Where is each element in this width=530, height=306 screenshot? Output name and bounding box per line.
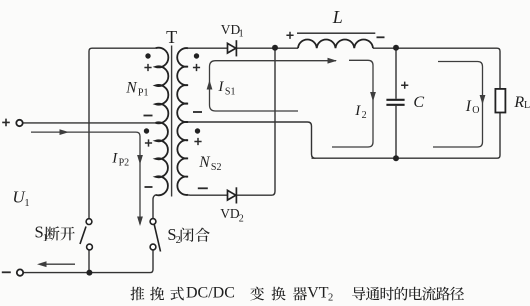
capacitor C plates bbox=[386, 100, 404, 105]
svg-text:O: O bbox=[472, 105, 479, 116]
current loop I2 bbox=[332, 60, 373, 147]
return arrow bottom-left bbox=[41, 263, 75, 265]
polarity dot NS2 bbox=[195, 128, 200, 133]
wire bottom-left rail bbox=[24, 272, 151, 274]
wire bottom output rail bbox=[312, 157, 498, 159]
plus NP1 bbox=[144, 64, 151, 71]
wire RL right branch down bbox=[497, 48, 500, 158]
input + terminal bbox=[16, 120, 22, 126]
wire S1 bottom stub bbox=[88, 250, 90, 273]
svg-text:T: T bbox=[166, 27, 177, 47]
transformer T core bbox=[171, 46, 173, 197]
wire secondary center tap jog bbox=[188, 122, 316, 158]
svg-text:DC/DC: DC/DC bbox=[186, 285, 235, 302]
inductor L humps bbox=[298, 39, 373, 48]
svg-text:L: L bbox=[332, 7, 343, 27]
plus capacitor bbox=[401, 82, 408, 89]
node D junction dot (bottom-left rail) bbox=[86, 270, 92, 276]
plus inductor left bbox=[286, 32, 293, 39]
current path IP2 arrow line bbox=[31, 132, 140, 224]
current loop IO bbox=[433, 62, 483, 148]
node A junction dot (VD outputs) bbox=[272, 45, 278, 51]
inductor L overbar bbox=[297, 32, 375, 34]
wire NS2 bottom to VD2 anode bbox=[188, 194, 228, 196]
current loop IS1 bbox=[210, 61, 337, 111]
svg-text:I: I bbox=[217, 79, 224, 95]
transformer winding NP1 bbox=[156, 48, 169, 124]
node B junction dot (inductor-capacitor) bbox=[393, 45, 399, 51]
wire capacitor branch bbox=[395, 48, 397, 99]
svg-text:VD: VD bbox=[220, 206, 240, 221]
svg-text:VD: VD bbox=[221, 22, 241, 37]
wire NP2 bottom to switch S2 bbox=[153, 195, 156, 219]
svg-text:2: 2 bbox=[362, 110, 367, 121]
svg-text:P2: P2 bbox=[119, 157, 130, 168]
node C junction dot (capacitor bottom) bbox=[393, 155, 399, 161]
minus NP2 bbox=[145, 186, 153, 188]
svg-text:1: 1 bbox=[239, 29, 244, 40]
minus NS1 bbox=[193, 111, 202, 113]
svg-text:I: I bbox=[111, 150, 118, 166]
wire VD1 cathode to node A then inductor then RL branch bbox=[237, 47, 299, 49]
wire NS1 top to VD1 anode bbox=[188, 47, 228, 49]
minus NS2 bbox=[198, 187, 208, 189]
svg-text:2: 2 bbox=[328, 292, 333, 303]
minus input bbox=[2, 271, 11, 273]
minus NP1 bbox=[144, 115, 153, 117]
svg-text:R: R bbox=[513, 94, 524, 111]
switch S2 blade (closed) bbox=[154, 224, 160, 251]
input - terminal bbox=[17, 269, 23, 275]
caption 推挽式DC/DC变换器VT2导通时的电流路径 bbox=[130, 287, 144, 301]
diode VD2 bbox=[228, 187, 237, 203]
svg-text:L: L bbox=[524, 100, 530, 111]
plus NS1 bbox=[193, 64, 200, 71]
svg-text:S1: S1 bbox=[225, 87, 236, 98]
switch S2 contacts bbox=[150, 219, 156, 225]
svg-text:VT: VT bbox=[307, 285, 329, 302]
diode VD1 bbox=[228, 40, 237, 56]
transformer winding NP2 bbox=[156, 122, 168, 195]
wire input + terminal to primary center tap bbox=[23, 122, 156, 124]
plus input bbox=[2, 119, 10, 127]
svg-text:1: 1 bbox=[24, 198, 29, 209]
svg-text:2: 2 bbox=[239, 213, 244, 224]
svg-text:C: C bbox=[413, 94, 424, 111]
polarity dot NP2 bbox=[144, 128, 149, 133]
svg-text:1: 1 bbox=[43, 233, 48, 244]
plus NS2 bbox=[194, 138, 201, 145]
transformer winding NS2 bbox=[177, 122, 188, 195]
svg-text:N: N bbox=[198, 154, 211, 171]
svg-text:I: I bbox=[354, 103, 361, 119]
wire top-left from corner to NP1 top bbox=[89, 48, 156, 219]
minus inductor right bbox=[377, 36, 385, 38]
switch S1 contacts bbox=[86, 219, 92, 225]
svg-text:S2: S2 bbox=[211, 162, 222, 173]
resistor RL bbox=[495, 89, 505, 113]
polarity dot NS1 bbox=[194, 53, 199, 58]
transformer winding NS1 bbox=[177, 48, 188, 122]
wire VD2 cathode up to node A bbox=[237, 48, 276, 195]
svg-text:N: N bbox=[125, 79, 138, 96]
svg-text:I: I bbox=[465, 98, 472, 115]
switch S1 blade (open) bbox=[80, 227, 86, 245]
svg-text:P1: P1 bbox=[138, 87, 149, 98]
svg-text:2: 2 bbox=[176, 235, 181, 246]
polarity dot NP1 bbox=[145, 53, 150, 58]
plus NP2 bbox=[145, 139, 152, 146]
wire S2 to bottom-left rail bbox=[150, 250, 153, 273]
